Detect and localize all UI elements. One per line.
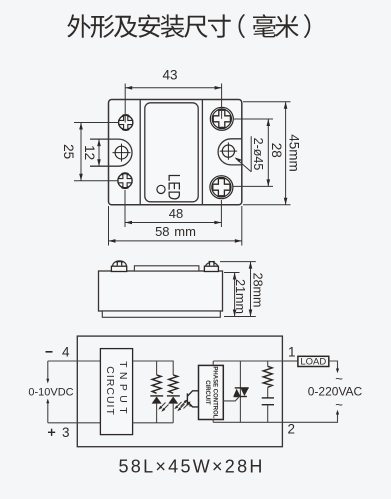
dimension 58 mm bottom: [109, 206, 242, 246]
output screw middle-right (crosshair): [220, 142, 237, 159]
left mounting boss (stadium): [90, 139, 132, 166]
svg-text:21mm: 21mm: [233, 279, 247, 314]
base plate: [102, 311, 220, 317]
dimension 48 bottom: [125, 190, 221, 227]
svg-text:48: 48: [169, 206, 183, 221]
dimension 45mm right: [243, 102, 301, 205]
triac MT2-MT1 line: [239, 361, 241, 422]
svg-text:12: 12: [82, 145, 97, 160]
AC top bus wire: [213, 360, 282, 362]
SSR boundary box: [77, 336, 282, 447]
wire load to AC source: [329, 361, 338, 370]
svg-text:43: 43: [162, 68, 177, 83]
right terminal screw head dome: [205, 263, 217, 266]
wire chain1 tap: [156, 361, 158, 375]
right screw slot notch: [210, 262, 214, 266]
svg-text:58 mm: 58 mm: [155, 224, 196, 239]
LED D1 emission arrows: [158, 403, 168, 412]
right terminal strip divider: [201, 100, 203, 205]
input circuit block U1: [100, 349, 132, 435]
svg-text:LOAD: LOAD: [300, 357, 326, 368]
dimension 12 left: [82, 139, 101, 166]
dimension 25 left: [61, 123, 118, 181]
wire terminal 4 to input block: [48, 360, 101, 362]
left screw slot notch: [117, 262, 121, 266]
output screw top-right (large Phillips): [210, 107, 233, 130]
dimension 28mm: [220, 262, 265, 317]
dimension 43 top: [125, 68, 221, 123]
triac Q2 triangles: [234, 388, 249, 397]
svg-text:2-ø45: 2-ø45: [251, 138, 265, 171]
right terminal bump: [204, 266, 218, 271]
title 外形及安装尺寸（毫米）: [67, 14, 310, 38]
dimension 28 right: [233, 119, 284, 186]
svg-text:25: 25: [61, 144, 76, 159]
LED D2 (opto emitter): [167, 396, 180, 423]
left terminal strip divider: [139, 100, 141, 205]
output screw bottom-right (large Phillips): [210, 176, 233, 199]
svg-text:0-10VDC: 0-10VDC: [28, 387, 73, 399]
snubber capacitor C1: [262, 398, 274, 422]
plus sign: [48, 429, 55, 436]
svg-text:2: 2: [288, 422, 296, 437]
svg-text:TNPUTCIRCUIT: TNPUTCIRCUIT: [104, 361, 129, 418]
resistor R2: [169, 375, 178, 393]
snubber resistor R3: [263, 361, 272, 398]
phototransistor Q1: [187, 391, 198, 407]
screw terminal bottom-left (Phillips): [118, 174, 132, 188]
svg-text:28mm: 28mm: [251, 273, 265, 308]
phototransistor receive arrows: [181, 399, 191, 408]
cover rounded rectangle: [145, 103, 198, 202]
wire chains to bottom: [133, 422, 174, 424]
cover top plate: [134, 266, 199, 271]
left terminal screw head dome: [113, 261, 127, 266]
left terminal bump: [111, 266, 126, 271]
wire input block to LED chains (top): [133, 361, 174, 375]
screw terminal middle-left (crosshair): [113, 144, 131, 162]
right output boss (stadium): [218, 139, 242, 165]
side body: [99, 271, 223, 311]
LOAD box: [298, 356, 329, 366]
svg-text:3: 3: [62, 425, 70, 440]
svg-text:1: 1: [288, 345, 296, 360]
wire terminal 1 to load: [282, 360, 298, 362]
wire terminal 3 to input block: [48, 422, 101, 424]
svg-text:LED: LED: [164, 174, 183, 200]
svg-text:~: ~: [335, 397, 343, 412]
phase control circuit block U2: [199, 365, 224, 419]
LED D1: [150, 396, 163, 423]
stub block top to AC bus: [212, 361, 214, 365]
svg-text:45mm: 45mm: [286, 134, 301, 172]
dimension 21mm: [224, 273, 247, 317]
AC bottom return wire: [213, 421, 282, 423]
resistor R1: [152, 375, 161, 393]
stub block bottom to AC return: [212, 420, 214, 423]
minus sign: [46, 351, 53, 353]
relay body outline: [109, 100, 242, 205]
screw terminal top-left (Phillips): [119, 115, 133, 129]
DC source annotation 0-10VDC: [28, 361, 73, 423]
svg-text:58L×45W×28H: 58L×45W×28H: [119, 457, 265, 477]
wire AC source to terminal 2: [282, 414, 337, 423]
triac gate wire: [223, 397, 239, 401]
svg-text:28: 28: [269, 143, 284, 158]
hole callout 2-ø45: [235, 136, 265, 172]
LED D2 emission arrows: [174, 402, 184, 411]
LED indicator circle: [157, 185, 165, 193]
svg-text:4: 4: [62, 345, 70, 360]
